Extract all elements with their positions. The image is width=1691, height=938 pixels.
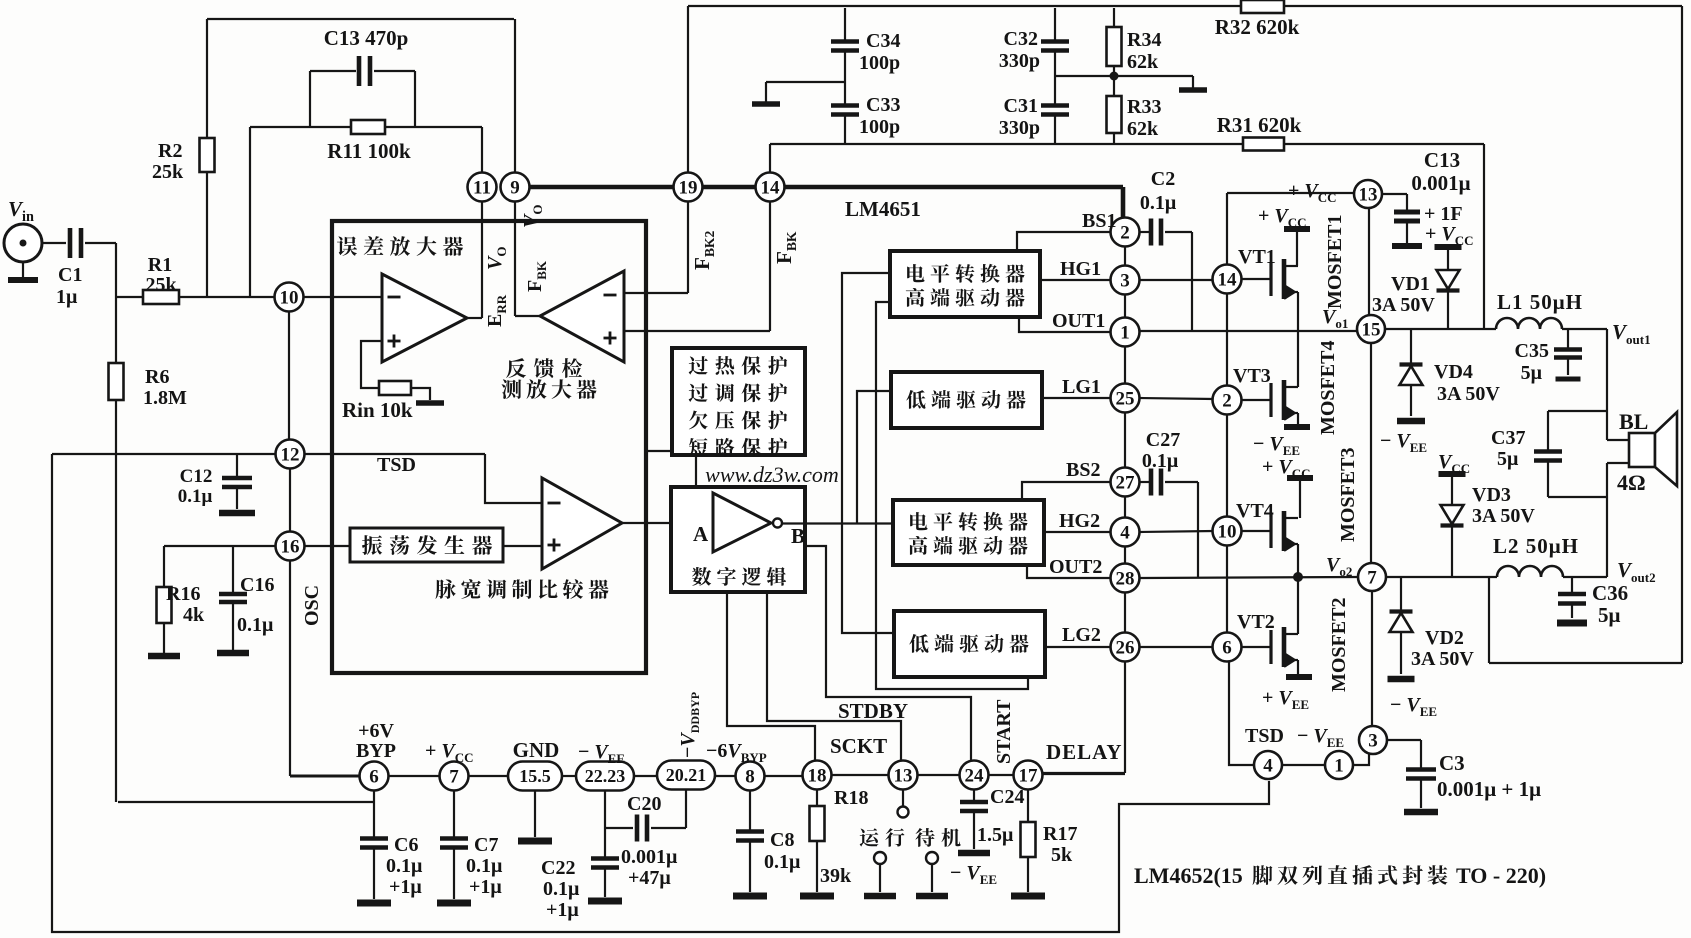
svg-text:C2: C2 [1151,168,1175,190]
svg-text:4k: 4k [183,604,205,626]
svg-text:11: 11 [473,177,491,198]
svg-text:62k: 62k [1127,118,1159,140]
svg-text:HG2: HG2 [1059,510,1100,532]
svg-text:VT4: VT4 [1236,500,1274,522]
svg-text:2: 2 [1222,390,1232,411]
svg-text:VT3: VT3 [1233,365,1271,387]
svg-text:LG1: LG1 [1062,376,1101,398]
svg-text:7: 7 [449,766,459,787]
svg-text:25: 25 [1116,388,1135,409]
svg-text:16: 16 [281,536,300,557]
svg-text:4: 4 [1263,755,1273,776]
svg-text:LM4652(15: LM4652(15 [1134,863,1243,888]
svg-text:62k: 62k [1127,51,1159,73]
svg-text:100p: 100p [859,52,900,74]
svg-text:2: 2 [1120,222,1130,243]
svg-text:15.5: 15.5 [519,766,551,786]
svg-text:C33: C33 [866,94,900,116]
svg-text:1μ: 1μ [56,286,78,308]
svg-text:OUT2: OUT2 [1049,556,1102,578]
svg-text:VT1: VT1 [1238,246,1276,268]
svg-text:3: 3 [1368,730,1378,751]
svg-text:+1μ: +1μ [546,899,579,921]
svg-text:TSD: TSD [377,454,416,476]
svg-text:20.21: 20.21 [666,765,707,785]
svg-text:3A 50V: 3A 50V [1411,648,1474,670]
svg-text:L1 50μH: L1 50μH [1497,290,1583,314]
svg-text:6: 6 [369,766,379,787]
svg-text:C7: C7 [474,834,498,856]
svg-text:27: 27 [1116,472,1136,493]
svg-text:HG1: HG1 [1060,258,1101,280]
svg-text:15: 15 [1362,319,1381,340]
svg-text:0.001μ + 1μ: 0.001μ + 1μ [1437,777,1541,801]
svg-text:C6: C6 [394,834,418,856]
svg-text:C13 470p: C13 470p [324,26,409,50]
svg-text:39k: 39k [820,865,852,887]
svg-text:5k: 5k [1051,844,1073,866]
svg-text:26: 26 [1116,637,1135,658]
svg-text:BYP: BYP [356,740,396,762]
svg-text:L2 50μH: L2 50μH [1493,534,1579,558]
svg-text:R18: R18 [834,787,868,809]
svg-text:100p: 100p [859,116,900,138]
svg-text:0.1μ: 0.1μ [1142,450,1179,472]
svg-text:14: 14 [761,177,781,198]
svg-text:C3: C3 [1439,751,1465,775]
svg-text:www.dz3w.com: www.dz3w.com [705,462,839,487]
svg-text:22.23: 22.23 [585,766,626,786]
svg-text:MOSFET1: MOSFET1 [1324,215,1346,309]
svg-text:GND: GND [513,738,560,762]
svg-text:0.001μ: 0.001μ [621,846,678,868]
svg-text:4: 4 [1120,522,1130,543]
svg-text:TO - 220): TO - 220) [1456,863,1546,888]
svg-text:LG2: LG2 [1062,624,1101,646]
svg-text:0.1μ: 0.1μ [178,486,213,507]
svg-text:10: 10 [1218,521,1237,542]
svg-text:13: 13 [1359,184,1378,205]
svg-text:VD4: VD4 [1434,361,1473,383]
svg-text:BL: BL [1619,409,1648,434]
svg-text:8: 8 [745,766,755,787]
svg-text:C20: C20 [627,793,661,815]
svg-text:BS2: BS2 [1066,459,1100,481]
svg-text:Rin 10k: Rin 10k [342,398,413,422]
svg-text:0.1μ: 0.1μ [237,614,274,636]
svg-text:R11 100k: R11 100k [327,139,411,163]
svg-text:6: 6 [1222,637,1232,658]
svg-text:5μ: 5μ [1598,603,1621,627]
svg-text:18: 18 [808,765,827,786]
svg-text:SCKT: SCKT [830,734,887,758]
svg-text:5μ: 5μ [1521,362,1543,384]
svg-text:5μ: 5μ [1497,448,1519,470]
svg-text:4Ω: 4Ω [1617,470,1646,495]
svg-text:A: A [693,522,709,546]
svg-text:+ 1F: + 1F [1424,203,1463,225]
svg-text:1.8M: 1.8M [143,387,187,409]
svg-text:C13: C13 [1424,148,1460,172]
svg-text:+1μ: +1μ [469,876,502,898]
svg-text:+1μ: +1μ [389,876,422,898]
svg-text:B: B [791,524,805,548]
svg-text:1: 1 [1120,322,1130,343]
svg-text:3A 50V: 3A 50V [1437,383,1500,405]
svg-text:25k: 25k [145,274,177,296]
svg-text:C34: C34 [866,30,900,52]
svg-text:1.5μ: 1.5μ [977,824,1014,846]
svg-text:OSC: OSC [301,585,323,626]
svg-text:VD3: VD3 [1472,484,1511,506]
svg-text:+47μ: +47μ [628,867,671,889]
svg-text:R32 620k: R32 620k [1215,15,1300,39]
svg-text:0.1μ: 0.1μ [1140,192,1177,214]
svg-text:DELAY: DELAY [1046,740,1123,764]
svg-text:C27: C27 [1146,429,1180,451]
svg-text:R34: R34 [1127,29,1161,51]
svg-text:R16: R16 [166,583,200,605]
svg-text:VT2: VT2 [1237,611,1275,633]
svg-text:9: 9 [510,177,520,198]
svg-text:BS1: BS1 [1082,210,1116,232]
svg-text:R17: R17 [1043,823,1077,845]
svg-text:R2: R2 [158,140,182,162]
svg-text:7: 7 [1367,567,1377,588]
svg-text:MOSFET2: MOSFET2 [1328,598,1350,692]
svg-text:C32: C32 [1004,28,1038,50]
svg-text:C37: C37 [1491,427,1525,449]
svg-text:R1: R1 [148,254,172,276]
svg-text:330p: 330p [999,50,1040,72]
svg-text:VD2: VD2 [1425,627,1464,649]
svg-text:C8: C8 [770,829,794,851]
svg-text:START: START [993,699,1015,764]
svg-text:3A 50V: 3A 50V [1472,505,1535,527]
svg-text:C16: C16 [240,574,274,596]
svg-text:R33: R33 [1127,96,1161,118]
svg-text:C31: C31 [1004,95,1038,117]
svg-text:R6: R6 [145,366,169,388]
svg-text:C1: C1 [58,264,82,286]
svg-text:VD1: VD1 [1391,273,1430,295]
svg-text:OUT1: OUT1 [1052,310,1105,332]
svg-text:0.1μ: 0.1μ [764,851,801,873]
svg-text:10: 10 [280,287,299,308]
svg-text:MOSFET3: MOSFET3 [1337,448,1359,542]
svg-text:LM4651: LM4651 [845,197,921,221]
svg-text:0.1μ: 0.1μ [466,855,503,877]
svg-text:3: 3 [1120,270,1130,291]
svg-text:MOSFET4: MOSFET4 [1317,341,1339,435]
svg-text:0.1μ: 0.1μ [543,878,580,900]
svg-text:17: 17 [1019,765,1039,786]
svg-text:14: 14 [1218,269,1238,290]
svg-text:STDBY: STDBY [838,699,908,723]
svg-text:TSD: TSD [1245,725,1284,747]
svg-text:28: 28 [1116,568,1135,589]
svg-text:12: 12 [281,444,300,465]
svg-text:19: 19 [679,177,698,198]
svg-text:1: 1 [1334,755,1344,776]
svg-text:R31 620k: R31 620k [1217,113,1302,137]
svg-text:C24: C24 [990,786,1024,808]
svg-text:C35: C35 [1515,340,1549,362]
svg-text:0.1μ: 0.1μ [386,855,423,877]
svg-text:C12: C12 [180,466,213,487]
svg-text:24: 24 [965,765,985,786]
svg-text:0.001μ: 0.001μ [1411,171,1470,195]
svg-text:C22: C22 [541,857,575,879]
svg-text:13: 13 [894,765,913,786]
svg-text:3A 50V: 3A 50V [1372,294,1435,316]
svg-text:C36: C36 [1592,581,1628,605]
svg-text:+6V: +6V [358,720,394,742]
svg-text:25k: 25k [152,161,184,183]
svg-text:330p: 330p [999,117,1040,139]
